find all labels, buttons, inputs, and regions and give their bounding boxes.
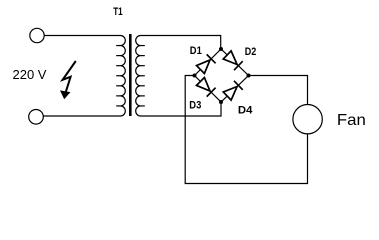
svg-text:D4: D4 — [238, 105, 253, 117]
svg-text:D2: D2 — [245, 46, 256, 58]
svg-text:D3: D3 — [189, 100, 201, 112]
svg-text:Fan: Fan — [337, 112, 366, 129]
svg-text:T1: T1 — [113, 6, 123, 18]
svg-text:D1: D1 — [190, 45, 202, 57]
svg-text:220 V: 220 V — [13, 67, 47, 82]
